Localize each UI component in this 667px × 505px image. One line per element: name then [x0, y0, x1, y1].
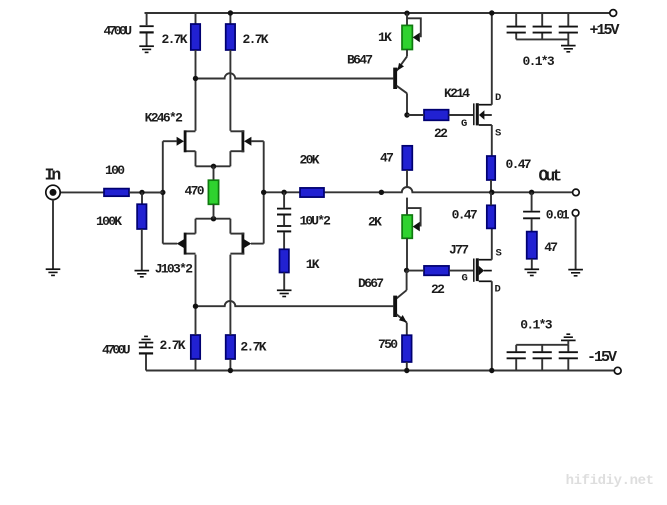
- svg-text:470: 470: [185, 183, 205, 198]
- svg-text:hifidiy.net: hifidiy.net: [566, 473, 654, 489]
- svg-text:K214: K214: [444, 86, 470, 101]
- svg-text:K246*2: K246*2: [145, 110, 184, 125]
- svg-text:S: S: [495, 128, 501, 140]
- svg-text:J103*2: J103*2: [155, 261, 194, 276]
- svg-text:B647: B647: [347, 52, 372, 67]
- svg-text:22: 22: [434, 126, 448, 141]
- svg-text:In: In: [45, 166, 61, 185]
- svg-text:J77: J77: [449, 242, 468, 257]
- svg-text:2.7K: 2.7K: [243, 32, 269, 47]
- svg-text:1K: 1K: [306, 257, 320, 272]
- svg-text:D: D: [495, 92, 501, 104]
- svg-text:0.1*3: 0.1*3: [523, 54, 555, 69]
- svg-text:G: G: [461, 118, 467, 130]
- svg-text:D: D: [495, 284, 501, 296]
- svg-text:D667: D667: [358, 276, 383, 291]
- svg-text:0.47: 0.47: [506, 157, 531, 172]
- svg-text:10U*2: 10U*2: [300, 214, 332, 229]
- svg-text:-15V: -15V: [587, 349, 617, 366]
- svg-text:0.01: 0.01: [546, 207, 570, 222]
- svg-text:47: 47: [544, 240, 557, 255]
- svg-text:2.7K: 2.7K: [160, 338, 186, 353]
- svg-text:G: G: [462, 273, 468, 285]
- svg-text:4700U: 4700U: [104, 23, 132, 38]
- svg-text:0.47: 0.47: [452, 207, 477, 222]
- svg-text:47: 47: [380, 150, 393, 165]
- svg-text:20K: 20K: [300, 152, 320, 167]
- svg-text:100: 100: [105, 163, 125, 178]
- svg-text:2.7K: 2.7K: [240, 339, 266, 354]
- svg-text:2K: 2K: [368, 214, 382, 229]
- svg-text:+15V: +15V: [590, 22, 620, 39]
- svg-text:Out: Out: [539, 166, 562, 185]
- svg-text:0.1*3: 0.1*3: [520, 317, 552, 332]
- svg-text:S: S: [496, 248, 502, 260]
- svg-text:100K: 100K: [96, 214, 122, 229]
- svg-text:750: 750: [378, 337, 398, 352]
- svg-text:22: 22: [431, 282, 445, 297]
- svg-text:2.7K: 2.7K: [162, 32, 188, 47]
- svg-text:1K: 1K: [378, 30, 392, 45]
- svg-text:4700U: 4700U: [102, 342, 130, 357]
